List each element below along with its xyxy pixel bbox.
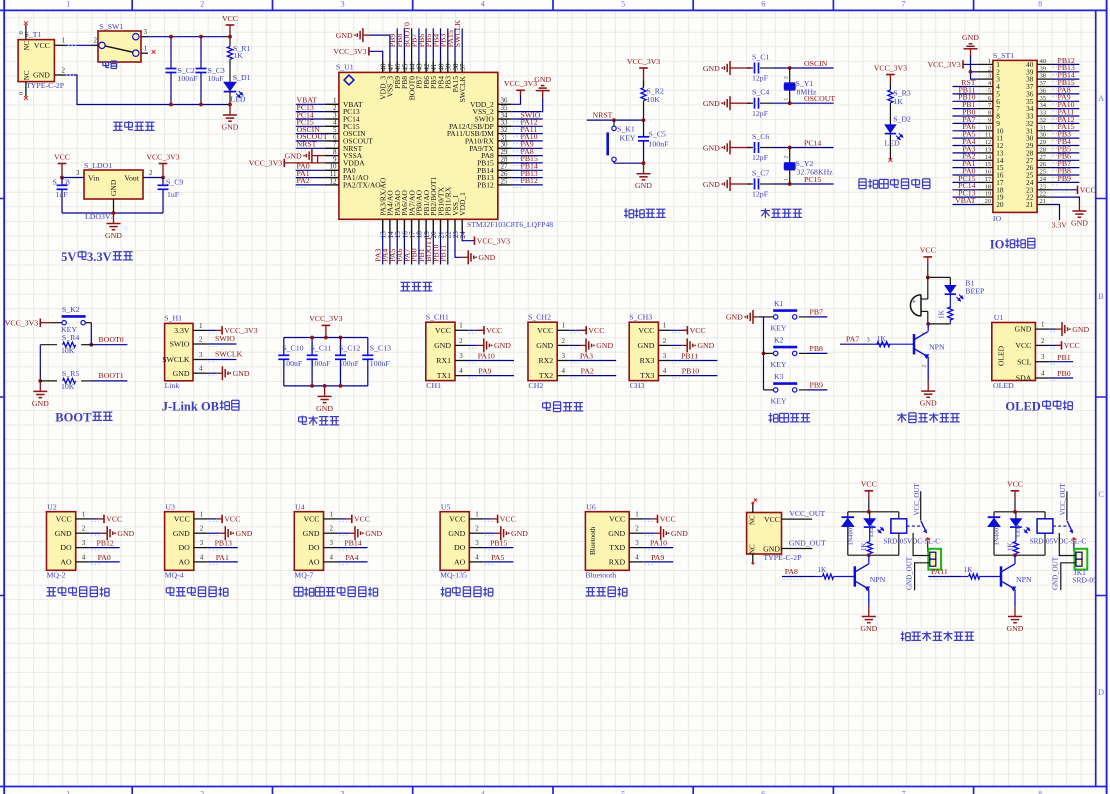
terminal wires [1059,533,1076,556]
U1 pin 21 PB10/TX [440,219,442,231]
svg-text:1: 1 [475,510,479,518]
wire net PA1 [208,561,238,563]
svg-text:4: 4 [1041,369,1045,377]
wire PB0 net [1049,377,1073,379]
svg-text:3: 3 [475,539,479,547]
wire net PB4 [1052,145,1080,147]
ST1 pin 24 [1037,181,1052,183]
wire net PA9 [643,561,673,563]
svg-text:GND: GND [511,529,528,538]
svg-text:SWCLK: SWCLK [215,350,243,359]
ST1 pin 39 [1037,71,1052,73]
ST1 pin 1 [978,63,993,65]
wire SW1.3 to vcc rail [148,36,230,38]
svg-text:VDD_1: VDD_1 [458,192,467,216]
svg-text:100nF: 100nF [339,359,360,368]
svg-text:U2: U2 [47,503,57,512]
capacitor S_C4 12pF [736,102,751,104]
svg-text:13: 13 [985,147,992,154]
svg-text:4: 4 [200,553,204,561]
svg-text:S_T1: S_T1 [25,30,42,39]
svg-text:24: 24 [459,231,467,239]
svg-text:VCC: VCC [537,326,553,335]
title 甲烷检测模块 [166,587,174,589]
svg-text:VCC: VCC [638,326,654,335]
wire OSCOUT [773,102,834,104]
connector S_ST1 IO header [993,60,1037,212]
wire GND_OUT net [782,548,813,550]
svg-text:PA0: PA0 [98,553,111,562]
buzzer B1 [927,277,929,299]
ST1 pin 2 [978,71,993,73]
svg-text:3: 3 [200,539,204,547]
top rail [848,511,899,513]
svg-text:VCC: VCC [588,326,604,335]
svg-text:U4: U4 [295,503,305,512]
svg-text:2: 2 [784,76,790,79]
U1 pin 33 PA12/USB/DP [498,125,512,127]
U1 pin 40 PB4 [440,60,442,72]
ST1 pin22 GND [1052,197,1080,200]
gnd rail [284,385,368,387]
svg-text:NC: NC [23,70,31,80]
U2 GND [90,532,102,534]
svg-text:GND: GND [703,64,720,73]
svg-text:32.768KHz: 32.768KHz [797,168,834,177]
transistor NPN alarm [927,324,929,332]
wire T1.1 to SW1.2 [65,44,91,46]
svg-text:PA10: PA10 [478,352,495,361]
wire net PC13 [953,196,978,198]
svg-text:IO: IO [993,214,1002,223]
svg-text:TX1: TX1 [437,371,451,380]
svg-text:MQ-4: MQ-4 [165,570,184,579]
ST1 pin 11 [978,137,993,139]
svg-text:2: 2 [784,156,790,159]
svg-text:4: 4 [82,553,86,561]
svg-text:VCC: VCC [224,515,240,524]
svg-text:2: 2 [200,789,204,794]
ST1 pin 7 [978,108,993,110]
svg-text:7: 7 [902,789,906,794]
title 一氧化碳检测模块 [294,586,303,588]
svg-text:OLED: OLED [997,345,1006,366]
U1 pin 23 VSS_1 [454,219,456,231]
ST1 pin 3 [978,78,993,80]
ST1 pin 37 [1037,86,1052,88]
svg-text:CH2: CH2 [529,381,544,390]
svg-text:S_C6: S_C6 [752,132,769,141]
wire SWCLK net [208,359,237,361]
svg-text:37: 37 [1040,80,1047,87]
U1 pin 2 PC13 [325,111,339,113]
wire net PB14 [1052,78,1080,80]
svg-text:2: 2 [94,37,98,45]
svg-text:GND: GND [336,31,353,40]
svg-text:OSCIN: OSCIN [804,59,828,68]
svg-text:GND: GND [222,122,239,131]
U5 GND [483,532,495,534]
wire key to gnd [614,162,644,164]
svg-text:GND: GND [860,624,877,633]
left rail to gnd [39,345,41,381]
wire net PA9 [1052,100,1080,102]
svg-text:PA3: PA3 [580,352,593,361]
wire net PB8 [799,352,807,354]
svg-text:CH3: CH3 [630,381,645,390]
svg-text:2: 2 [988,65,991,72]
wire net PB10 [670,375,717,377]
S_CH2 VCC [569,329,586,331]
ST1 pin 33 [1037,115,1052,117]
wire net PA2 [569,375,616,377]
U1 pin 24 VDD_1 [461,219,463,231]
ground GND S_C4 [730,102,736,104]
wire net PC14 [953,189,978,191]
relay switch [907,525,923,527]
svg-text:SWCLK: SWCLK [453,20,462,48]
oled GND [1049,328,1056,330]
wire net PB0 [953,115,978,117]
svg-text:VCC: VCC [174,515,190,524]
connector T1 TYPE-C-2P [18,40,54,82]
svg-text:2: 2 [62,66,66,74]
svg-text:C: C [1098,490,1103,499]
U1 VSS_1 to GND [455,232,462,258]
U1 pin 28 PB15 [498,162,512,164]
svg-text:K3: K3 [774,372,784,381]
svg-text:26: 26 [1040,161,1047,168]
svg-text:4: 4 [459,367,463,375]
svg-text:PB8: PB8 [810,344,824,353]
svg-text:34: 34 [1040,102,1047,109]
svg-text:CH1: CH1 [426,381,441,390]
svg-text:2: 2 [200,525,204,533]
svg-text:4: 4 [663,367,667,375]
LED of B1 [949,277,951,285]
svg-text:1K: 1K [860,542,868,551]
ground GND S_C1 [730,67,736,69]
ST1 pins 2,3 GND [971,56,978,72]
wire net PA7 [953,122,978,124]
power port VCC_3V3 indicator [886,74,895,76]
svg-text:PA2/TX/AO: PA2/TX/AO [343,181,381,190]
U3 GND [208,532,220,534]
resistor 1K relay [869,527,871,541]
svg-text:Link: Link [165,381,180,390]
svg-text:U1: U1 [994,313,1004,322]
wire net PA15 [1052,130,1080,132]
svg-text:PB0: PB0 [1057,369,1071,378]
capacitor S_C6 12pF [736,147,751,149]
svg-text:GND_OUT: GND_OUT [1052,556,1060,590]
title 滤波电路 [299,416,307,418]
U1 pin 10 PA0 [325,169,339,171]
svg-text:1: 1 [784,98,790,101]
ST1 pin 5 [978,93,993,95]
svg-text:22: 22 [1040,191,1047,198]
svg-text:RX3: RX3 [640,356,655,365]
svg-text:GND_OUT: GND_OUT [905,556,913,590]
U1 pin 37 SWCLK [461,60,463,72]
U1 pin 12 PA2/TX/AO [325,184,339,186]
power port VCC_3V3 [159,163,168,165]
svg-text:4: 4 [562,367,566,375]
svg-text:VCC_3V3: VCC_3V3 [249,159,282,168]
U1 VSS_3 to GND [369,35,390,60]
svg-text:GND: GND [448,529,465,538]
svg-text:1: 1 [66,789,70,794]
svg-text:3: 3 [867,337,870,344]
svg-text:S_C1: S_C1 [752,53,769,62]
U4 GND [338,532,350,534]
svg-text:PA2: PA2 [581,367,594,376]
wire net PA11 [928,576,961,578]
svg-text:PC14: PC14 [804,139,821,148]
svg-text:S_C8: S_C8 [53,177,70,186]
svg-text:2: 2 [330,525,334,533]
svg-text:VCC: VCC [54,152,70,161]
U1 pin 44 BOOT0 [411,60,413,72]
svg-text:J-Link OB: J-Link OB [162,400,219,414]
oled VCC [1049,344,1061,346]
svg-text:VCC: VCC [435,326,451,335]
svg-text:BOOT: BOOT [55,411,92,425]
module U3 MQ-4 [165,512,194,571]
base resistor 1K [961,576,968,578]
svg-text:S_K2: S_K2 [62,305,80,314]
svg-text:NPN: NPN [1016,575,1032,584]
svg-text:VCC: VCC [106,515,122,524]
svg-text:S_C7: S_C7 [752,169,769,178]
LDO pin 3 [62,177,84,179]
svg-text:1: 1 [330,510,334,518]
svg-text:NC: NC [749,544,757,554]
svg-text:DO: DO [60,543,72,552]
svg-text:VCC: VCC [609,515,625,524]
svg-text:33: 33 [1040,110,1047,117]
ST1 pin23 VCC [1052,189,1078,191]
svg-text:2: 2 [200,0,204,9]
button K2 KEY [764,352,774,354]
svg-text:3.3V: 3.3V [87,250,112,264]
svg-text:MQ-135: MQ-135 [440,570,467,579]
svg-text:VCC: VCC [449,515,465,524]
wire net PC15 [953,181,978,183]
svg-text:3: 3 [199,351,203,359]
svg-text:SDA: SDA [1016,374,1032,383]
ground GND keys [753,316,759,318]
svg-text:VCC_3V3: VCC_3V3 [477,237,510,246]
svg-text:PB10: PB10 [682,367,699,376]
svg-text:3.3V: 3.3V [1052,221,1068,230]
wire net PA6 [953,130,978,132]
U1 pin 27 PB14 [498,169,512,171]
U1 pin 19 PB1/AO [425,219,427,231]
wire net PA9 [467,375,514,377]
wire OSCIN [773,67,834,69]
svg-text:VCC_3V3: VCC_3V3 [146,152,179,161]
wire net VBAT [953,204,978,206]
power port VCC ldo [58,163,67,165]
svg-text:1: 1 [62,37,66,45]
svg-text:3: 3 [82,539,86,547]
svg-text:+: + [912,298,916,306]
svg-text:10K: 10K [61,346,75,355]
wire net PA5 [483,561,513,563]
wire BOOT0 net [91,344,127,346]
LED relay [1015,512,1017,519]
ST1 pin 29 [1037,145,1052,147]
ground GND relay [868,606,870,617]
bottom rail [848,554,899,556]
svg-text:KEY: KEY [620,134,636,143]
ST1 pin 17 [978,181,993,183]
svg-text:PB12: PB12 [97,539,114,548]
svg-text:1K: 1K [233,51,243,60]
sheet border frame [0,9,1107,11]
capacitor S_C12 100nF [340,338,342,356]
svg-text:2: 2 [459,337,463,345]
ST1 pin 14 [978,159,993,161]
wire net PA8 [782,576,815,578]
S_CH3 GND [670,344,681,346]
svg-text:VCC_3V3: VCC_3V3 [5,319,38,328]
resistor S_R1 1K [227,46,232,59]
svg-text:PA10: PA10 [650,539,667,548]
switch S_SW1 [98,31,141,62]
svg-text:PB11: PB11 [439,245,448,262]
svg-text:S_CH1: S_CH1 [426,313,449,322]
svg-text:GND: GND [1014,325,1031,334]
svg-text:12: 12 [330,177,338,185]
svg-text:7: 7 [902,0,906,9]
svg-text:AO: AO [60,558,72,567]
svg-text:1: 1 [199,322,203,330]
wire net RST [953,86,978,88]
button S_K2 KEY [62,321,66,325]
wire PC15 [773,183,834,185]
ground GND power [229,105,231,116]
U1 VSSA to GND [318,155,325,157]
svg-text:20: 20 [996,201,1004,209]
svg-text:0: 0 [18,31,25,34]
U1 pin 35 VSS_2 [498,111,512,113]
ST1 pin 18 [978,189,993,191]
LED relay [869,512,871,519]
svg-text:10K: 10K [647,95,661,104]
svg-text:PB13: PB13 [215,539,232,548]
svg-text:PA7: PA7 [846,335,859,344]
svg-text:10K: 10K [61,382,75,391]
wire net PA4 [338,561,368,563]
U1 VDDA to VCC_3V3 [317,156,319,163]
title 主芯片 [401,281,411,283]
wire net PA0 [953,174,978,176]
svg-text:D: D [1098,688,1104,697]
ST1 pin 16 [978,174,993,176]
svg-text:SRD-05: SRD-05 [1072,576,1097,585]
title 声光报警电路 [897,414,906,416]
wire net PA3 [953,152,978,154]
ST1 pin 31 [1037,130,1052,132]
svg-text:GND: GND [478,253,495,262]
svg-text:1K: 1K [937,309,946,319]
ground GND S_C6 [730,147,736,149]
ST1 pin 38 [1037,78,1052,80]
T1 pin 2 GND [54,74,65,76]
vcc rail [284,337,368,339]
terminal wires [913,533,930,556]
power port VCC_3V3 reset [639,67,648,69]
svg-text:12pF: 12pF [752,153,769,162]
capacitor S_C2 100nF [170,37,172,69]
svg-text:4: 4 [475,553,479,561]
relay coil [891,519,907,533]
svg-text:GND: GND [1007,624,1024,633]
svg-text:GND: GND [703,99,720,108]
svg-text:K1: K1 [774,299,784,308]
svg-text:U3: U3 [165,503,175,512]
svg-text:PB7: PB7 [810,308,824,317]
svg-text:PA4: PA4 [345,553,358,562]
S_CH1 GND [467,344,478,346]
svg-text:VCC_OUT: VCC_OUT [789,509,825,518]
svg-text:MQ-2: MQ-2 [47,570,66,579]
svg-text:8: 8 [1038,0,1042,9]
ST1 pin 25 [1037,174,1052,176]
svg-text:10uF: 10uF [208,74,225,83]
U1 pin 26 PB13 [498,177,512,179]
wire net PA2 [953,159,978,161]
svg-text:36: 36 [1040,88,1047,95]
svg-text:S_LDO1: S_LDO1 [84,161,112,170]
svg-text:12pF: 12pF [752,74,769,83]
svg-text:TXD: TXD [609,543,625,552]
svg-text:1uF: 1uF [167,190,180,199]
capacitor S_C11 100nF [311,338,313,356]
svg-text:100nF: 100nF [649,140,670,149]
svg-text:GND: GND [233,369,250,378]
U2 VCC [90,518,99,520]
svg-text:GND: GND [173,369,190,378]
svg-text:GND: GND [1072,325,1089,334]
U1 pin 14 PA4/AO [389,219,391,231]
wire net PA8 [1052,93,1080,95]
title 复位电路 [625,208,627,218]
wire net PA1 [953,167,978,169]
capacitor S_C3 10uF [200,37,202,69]
svg-text:NPN: NPN [870,575,886,584]
connector S_CH2 [528,322,557,380]
connector S_CH3 [629,322,658,380]
U1 pin 43 PB7 [418,60,420,72]
ground GND ldo [113,213,115,224]
svg-text:VCC: VCC [1015,341,1031,350]
power port VCC relay [865,490,874,492]
capacitor S_C13 100nF [367,338,369,356]
svg-text:S_R5: S_R5 [62,369,79,378]
svg-text:GND: GND [726,313,743,322]
power port VCC [226,24,235,26]
svg-text:TYPE-C-2P: TYPE-C-2P [763,553,802,562]
svg-text:S_C13: S_C13 [370,344,391,353]
diode 1N4007 [993,512,995,517]
U1 pin 13 PA3/RX/AO [382,219,384,231]
U1 pin 4 PC15 [325,125,339,127]
resistor S_R5 10K [40,380,57,382]
svg-text:39: 39 [1040,65,1047,72]
